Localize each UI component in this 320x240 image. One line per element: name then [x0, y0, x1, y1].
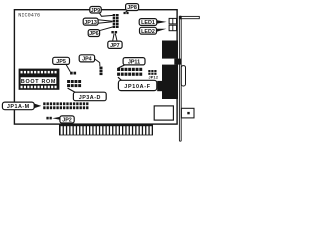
jumper JP5 (2-pin): [70, 72, 76, 75]
svg-text:JP2: JP2: [62, 118, 72, 124]
callout tail JP13 (arrow): [98, 20, 113, 24]
jumper JP2 (2-pin): [46, 117, 51, 120]
BOOT ROM IC body: [19, 69, 60, 90]
BOOT ROM IC top pin row: [21, 71, 57, 74]
header JP3A-D (2x4 block): [67, 80, 81, 87]
callout tail JP10A-F: [118, 77, 122, 80]
BNC connector body: [154, 106, 173, 120]
mounting bracket top tab: [179, 16, 199, 18]
LED D2 component: [169, 25, 176, 31]
mounting bracket vertical rail: [179, 16, 181, 141]
callout LED2: [140, 27, 157, 35]
header JP1A-M (2x14 block): [43, 102, 88, 109]
callout JP1A-M: [2, 102, 34, 110]
callout arrow JP2: [52, 117, 60, 120]
callout tail JP9: [99, 13, 113, 17]
callout tail JP11: [118, 65, 125, 68]
svg-text:JP11: JP11: [128, 59, 140, 65]
callout JP6: [88, 30, 99, 37]
BNC barrel through bracket: [181, 108, 194, 118]
svg-text:JP5: JP5: [56, 59, 66, 65]
callout tail JP8: [126, 10, 129, 12]
callout tail JP3A-D: [68, 88, 76, 92]
svg-text:JP6: JP6: [89, 31, 99, 37]
svg-text:JP12: JP12: [149, 76, 159, 80]
callout tail JP6: [99, 27, 113, 31]
callout JP13: [83, 18, 98, 26]
svg-text:LED1: LED1: [141, 20, 155, 26]
board outline: [14, 10, 177, 124]
callout tail JP7: [113, 34, 118, 42]
svg-text:JP13: JP13: [84, 20, 97, 26]
svg-text:JP10A-F: JP10A-F: [124, 84, 150, 90]
LED D1 component: [169, 18, 176, 24]
jumper JP7 (2-pin): [111, 31, 117, 33]
callout JP10A-F: [118, 80, 156, 90]
callout arrow LED1: [157, 20, 167, 23]
jumper block right of JP10A-F (2x2): [148, 70, 156, 75]
svg-text:JP8: JP8: [127, 5, 137, 11]
bracket bend joint: [179, 16, 182, 19]
callout JP3A-D: [73, 92, 106, 101]
callout arrow JP1A-M: [34, 104, 41, 109]
callout JP11: [123, 58, 145, 66]
AUI connector neck through bracket: [174, 59, 181, 65]
callout JP2: [60, 116, 74, 124]
jumper block JP9/JP13/JP6/JP7 (2x5 header): [113, 14, 119, 28]
jumper JP4 (3-pin vertical): [100, 67, 103, 76]
BNC center pin: [187, 112, 189, 114]
svg-text:JP3A-D: JP3A-D: [79, 95, 101, 101]
AUI port cutout on bracket: [181, 66, 185, 86]
svg-text:BOOT ROM: BOOT ROM: [21, 79, 56, 85]
svg-text:JP1A-M: JP1A-M: [7, 104, 30, 110]
callout tail JP5: [66, 65, 70, 72]
BOOT ROM IC bottom pin row: [21, 86, 57, 89]
header JP10A-F (2x7 block): [117, 68, 142, 76]
svg-text:JP9: JP9: [91, 8, 101, 14]
callout JP7: [108, 41, 122, 49]
callout JP5: [53, 57, 70, 65]
AUI connector upper body: [162, 41, 178, 59]
AUI connector lower body: [162, 65, 178, 99]
jumper JP8 (2-pin): [124, 12, 129, 14]
callout arrow LED2: [157, 29, 167, 32]
svg-text:JP4: JP4: [82, 57, 92, 63]
component block left of AUI: [157, 81, 162, 91]
callout JP9: [90, 7, 101, 14]
svg-text:JP7: JP7: [110, 43, 120, 49]
callout tail JP4: [94, 58, 100, 66]
svg-text:LED2: LED2: [141, 29, 155, 35]
edge connector (gold fingers comb): [59, 124, 153, 135]
BOOT ROM label plate: [20, 77, 57, 85]
callout LED1: [139, 19, 157, 27]
svg-text:NIC0476: NIC0476: [18, 12, 40, 18]
callout JP4: [79, 55, 94, 63]
callout JP8: [126, 4, 139, 12]
